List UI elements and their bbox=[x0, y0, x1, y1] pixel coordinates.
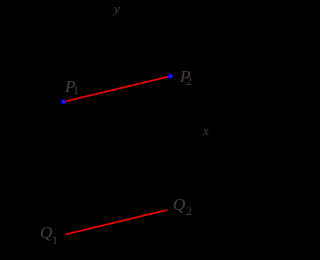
label x (horizontal axis) bbox=[203, 124, 209, 137]
label P2 bbox=[180, 68, 190, 85]
closed segment P1P2 (red) bbox=[64, 76, 171, 102]
label P1 bbox=[65, 78, 75, 95]
label Q1 bbox=[40, 224, 52, 241]
endpoint dot P2 bbox=[168, 74, 173, 79]
open segment Q1Q2 (red) bbox=[66, 210, 168, 234]
endpoint dot P1 bbox=[61, 99, 66, 104]
label Q2 bbox=[173, 196, 185, 213]
label y (vertical axis) bbox=[114, 2, 120, 15]
